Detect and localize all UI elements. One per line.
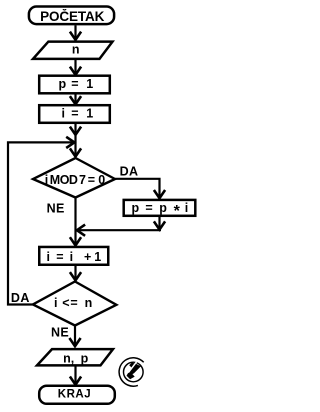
svg-text:NE: NE (51, 326, 69, 340)
svg-text:n: n (72, 42, 80, 56)
svg-text:DA: DA (120, 164, 139, 178)
svg-text:KRAJ: KRAJ (58, 389, 91, 401)
svg-text:DA: DA (11, 291, 30, 305)
svg-text:POČETAK: POČETAK (40, 9, 105, 24)
svg-text:p=1: p=1 (59, 77, 94, 91)
svg-text:NE: NE (47, 202, 65, 216)
